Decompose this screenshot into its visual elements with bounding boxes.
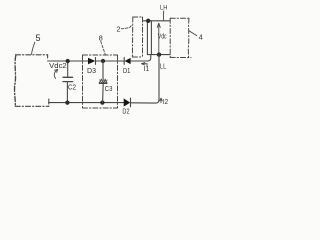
node: C2 bottom bbox=[65, 100, 69, 104]
wire: vertical link 1 bbox=[146, 21, 148, 55]
wire: bottom rail from D2 to LL drop corner bbox=[131, 102, 156, 104]
svg-text:4: 4 bbox=[199, 33, 203, 42]
svg-text:D2: D2 bbox=[122, 108, 129, 115]
node: C3 bottom bbox=[100, 100, 104, 104]
svg-text:D3: D3 bbox=[87, 68, 96, 75]
box 4 (dash-dot load box) bbox=[170, 18, 191, 57]
capacitor C3 bbox=[99, 61, 107, 103]
svg-text:C3: C3 bbox=[105, 86, 113, 93]
diode D3 bbox=[88, 58, 96, 65]
wire: LH rail bbox=[143, 20, 171, 22]
leader for label 2 bbox=[121, 26, 131, 29]
diode D1 bbox=[124, 58, 130, 65]
diode D2 bbox=[124, 98, 131, 107]
leader for label 8 bbox=[101, 42, 106, 55]
svg-text:D1: D1 bbox=[123, 68, 130, 75]
svg-text:C2: C2 bbox=[68, 84, 76, 91]
node: LH junction bbox=[146, 19, 150, 23]
svg-text:LL: LL bbox=[160, 64, 166, 71]
svg-text:8: 8 bbox=[99, 33, 103, 42]
capacitor C2 bbox=[63, 61, 73, 103]
svg-text:I1: I1 bbox=[144, 66, 149, 73]
current arrow I2 bbox=[160, 98, 163, 103]
wire: bottom rail from box 5 to D2 bbox=[49, 102, 124, 104]
wire: mid rail from box 5 to D3 bbox=[48, 60, 88, 62]
current arrow I1 bbox=[142, 63, 147, 67]
curved arrow for Vdc2 bbox=[54, 70, 57, 79]
wire: LL drop to bottom bbox=[156, 55, 160, 104]
wire: vertical link 2 bbox=[150, 21, 152, 55]
leader for label 4 bbox=[189, 31, 197, 36]
wire: LL rail bbox=[147, 54, 170, 56]
leader for label LH bbox=[162, 11, 164, 20]
node: C2 top bbox=[66, 59, 70, 63]
node: D3/C3 junction bbox=[101, 59, 105, 63]
box 8 (dash-dot clamp box) bbox=[83, 55, 118, 108]
svg-text:2: 2 bbox=[116, 24, 120, 33]
svg-text:LH: LH bbox=[160, 4, 168, 11]
svg-text:Vdc2: Vdc2 bbox=[49, 63, 67, 70]
wire: D1 to bend up to LL bbox=[130, 55, 150, 61]
svg-text:Vdc: Vdc bbox=[158, 34, 167, 41]
svg-text:5: 5 bbox=[36, 33, 41, 43]
wire: mid rail D3 to D1 bbox=[96, 60, 124, 62]
leader for label 5 bbox=[32, 42, 35, 54]
svg-text:I2: I2 bbox=[163, 99, 168, 106]
box 5 (dash-dot source box) bbox=[15, 55, 49, 107]
node: LL junction bbox=[157, 52, 161, 56]
Vdc measurement arrow bbox=[157, 23, 160, 53]
box 2 (dash-dot capacitor box) bbox=[132, 17, 142, 57]
